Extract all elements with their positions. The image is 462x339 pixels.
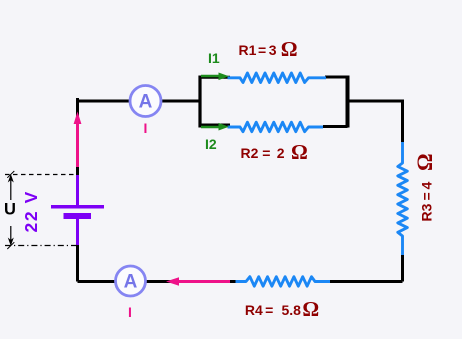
node left junction bar	[198, 76, 201, 128]
dash-dot line bottom of battery	[5, 245, 77, 247]
wire top (battery to parallel junction)	[78, 100, 201, 103]
svg-text:22 V: 22 V	[21, 190, 41, 232]
resistor R4	[236, 277, 331, 287]
label R1 = 3 Ohm	[239, 37, 298, 61]
battery V1 short plate	[64, 213, 92, 219]
resistor R3 (vertical)	[398, 142, 408, 255]
svg-text:Ω: Ω	[412, 153, 437, 171]
label R3 = 4 Ohm (rotated)	[412, 153, 437, 221]
resistor R2	[228, 122, 324, 132]
wire left vertical	[76, 98, 79, 282]
svg-text:A: A	[139, 92, 153, 113]
dimension line U	[7, 171, 14, 249]
wire right vertical leads	[401, 100, 404, 282]
wire middle (junction to right side)	[348, 100, 403, 103]
svg-text:I: I	[144, 120, 148, 136]
wire bottom branch leads	[200, 125, 348, 127]
arrow I bottom (magenta, pointing left)	[166, 277, 230, 285]
svg-text:I1: I1	[208, 50, 220, 66]
svg-text:I: I	[128, 304, 132, 320]
ammeter A1 (top)	[130, 86, 161, 117]
wire battery leads (purple)	[76, 175, 79, 245]
battery V1 long plate	[51, 205, 104, 209]
svg-text:R4=5.8: R4=5.8	[245, 302, 301, 318]
svg-text:U: U	[4, 201, 16, 219]
arrow I2 (green)	[201, 123, 229, 131]
resistor R1	[228, 73, 327, 83]
svg-text:A: A	[124, 272, 138, 293]
svg-text:I2: I2	[205, 136, 217, 152]
arrow I left side (magenta, pointing up)	[74, 112, 82, 168]
svg-text:R2=2: R2=2	[241, 145, 285, 161]
label R4 = 5.8 Ohm	[245, 297, 319, 321]
arrow I1 (green)	[201, 73, 229, 81]
ammeter A2 (bottom)	[116, 266, 146, 296]
svg-text:Ω: Ω	[302, 297, 319, 321]
dashed line top of battery	[5, 174, 77, 176]
svg-text:Ω: Ω	[281, 37, 298, 61]
svg-text:Ω: Ω	[291, 140, 308, 164]
wire bottom	[78, 280, 403, 283]
label R2 = 2 Ohm	[241, 140, 308, 164]
wire top branch leads	[200, 76, 348, 79]
node right junction bar	[346, 76, 350, 128]
svg-text:R1=3: R1=3	[239, 42, 277, 58]
